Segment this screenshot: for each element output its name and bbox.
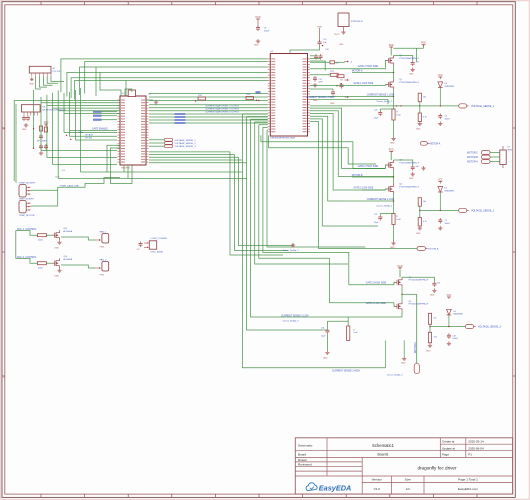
svg-text:Board1: Board1 [378,453,389,457]
svg-text:SDA: SDA [79,131,84,134]
svg-text:GND: GND [409,74,414,76]
svg-text:GATE 1 HIGH SIDE: GATE 1 HIGH SIDE [358,65,379,68]
svg-text:+3: +3 [350,62,352,64]
svg-text:GND: GND [54,276,59,278]
svg-text:Device_NetBp_2: Device_NetBp_2 [283,249,299,252]
svg-text:GND: GND [323,357,328,359]
svg-text:D4: D4 [445,83,447,85]
svg-text:100uF: 100uF [264,30,270,32]
svg-text:GATE 3 HIGH SIDE: GATE 3 HIGH SIDE [366,282,387,285]
svg-text:TSSOP24: TSSOP24 [121,168,131,170]
svg-text:SPI BUS: SPI BUS [85,135,94,137]
svg-text:Board: Board [298,452,307,456]
svg-text:Device_NetBp_3: Device_NetBp_3 [283,320,299,323]
svg-text:GND: GND [430,294,435,296]
svg-text:SMBJ5888: SMBJ5888 [445,86,454,88]
svg-text:V1.0: V1.0 [374,487,381,491]
svg-text:PGD: PGD [421,43,426,45]
svg-text:Drawn: Drawn [298,458,307,462]
svg-text:C31: C31 [321,327,324,329]
svg-text:VOLTAGE_SENSE_2: VOLTAGE_SENSE_2 [175,142,197,145]
svg-text:SPI LINES: SPI LINES [37,140,48,142]
svg-text:4.7k: 4.7k [434,336,438,338]
svg-text:EasyEDA: EasyEDA [319,484,351,493]
svg-text:100nF: 100nF [445,118,451,120]
svg-text:MOTOR-A: MOTOR-A [467,161,478,164]
svg-text:GATE 2 LOW SIDE: GATE 2 LOW SIDE [353,187,373,190]
svg-text:PWG: PWG [100,275,105,277]
svg-text:PWG: PWG [100,247,105,249]
svg-text:Schematic1: Schematic1 [372,443,395,448]
svg-text:VOLTAGE_SENSE_3: VOLTAGE_SENSE_3 [478,326,502,329]
svg-text:GND: GND [330,103,335,105]
svg-text:SDA: SDA [55,176,60,179]
svg-text:MBG: MBG [508,149,513,151]
svg-text:D: D [3,376,5,379]
svg-text:Device_NetBp_2: Device_NetBp_2 [387,373,403,376]
svg-text:TEMP_MOTOR: TEMP_MOTOR [19,215,35,217]
svg-text:X7RDPW-B: X7RDPW-B [351,21,363,23]
svg-text:D5: D5 [445,188,447,190]
svg-text:100nF: 100nF [445,223,451,225]
svg-text:C21: C21 [374,110,377,112]
svg-text:GND: GND [401,362,406,364]
svg-text:100nF: 100nF [452,338,458,340]
svg-text:Reviewed: Reviewed [298,462,312,466]
svg-text:Schematic: Schematic [298,443,313,447]
svg-text:2025-03-14: 2025-03-14 [468,439,484,443]
svg-text:VCC: VCC [438,180,443,182]
svg-text:SMBJ5888: SMBJ5888 [453,314,462,316]
svg-text:TEMP_DATA_LINE: TEMP_DATA_LINE [60,184,79,187]
svg-text:D6: D6 [453,311,455,313]
svg-text:SMBJ5888: SMBJ5888 [445,190,454,192]
svg-text:VCC: VCC [44,122,49,124]
svg-text:GATE 1 LOW SIDE: GATE 1 LOW SIDE [353,82,373,85]
svg-text:MOTOR-A: MOTOR-A [352,70,363,73]
svg-text:AO3400A: AO3400A [63,230,72,233]
svg-text:PGD: PGD [389,150,394,152]
svg-text:FAN_1: FAN_1 [100,231,107,234]
svg-text:GND: GND [416,233,421,235]
svg-text:Page 1 Total 1: Page 1 Total 1 [458,478,478,482]
svg-text:dragonfly foc driver: dragonfly foc driver [417,465,457,470]
svg-text:VCC: VCC [446,295,451,297]
svg-text:1mΩ: 1mΩ [396,114,401,116]
svg-text:10k: 10k [423,97,426,99]
svg-text:Page: Page [442,452,449,456]
svg-text:GND: GND [416,129,421,131]
svg-text:GND: GND [29,84,34,86]
svg-text:C29: C29 [452,335,455,337]
svg-text:PD13: PD13 [334,34,340,36]
svg-text:PTGD20N06FHPB-LF: PTGD20N06FHPB-LF [399,82,420,84]
svg-text:DISC_AGND: DISC_AGND [151,250,164,253]
svg-text:GND: GND [390,143,395,145]
svg-text:P1: P1 [468,452,472,456]
svg-text:GND: GND [339,44,344,46]
svg-text:VOLTAGE_SENSE_2: VOLTAGE_SENSE_2 [471,209,495,212]
svg-text:MOTOR-A: MOTOR-A [430,142,441,145]
svg-text:CURRENT SENSE 1 HIGH: CURRENT SENSE 1 HIGH [306,97,334,99]
svg-text:AO3400A: AO3400A [63,258,72,261]
svg-text:C9: C9 [445,116,447,118]
svg-text:A4: A4 [406,487,410,491]
svg-text:C9: C9 [445,220,447,222]
svg-text:PTGD20N06FHPB-LF: PTGD20N06FHPB-LF [399,186,420,188]
svg-text:VOLTAGE_SENSE_3: VOLTAGE_SENSE_3 [175,145,197,148]
svg-text:4.7k: 4.7k [423,117,427,119]
svg-text:C10: C10 [325,49,328,51]
svg-text:Update at: Update at [442,446,455,450]
svg-text:GATE ENABLE: GATE ENABLE [92,128,108,131]
svg-text:TEMP_MOSFET: TEMP_MOSFET [19,199,35,201]
svg-text:Device_NetBp_2: Device_NetBp_2 [377,100,393,103]
svg-text:4.7k: 4.7k [423,221,427,223]
svg-text:GATE 2 HIGH SIDE: GATE 2 HIGH SIDE [358,165,379,168]
svg-text:220Ω: 220Ω [38,267,43,269]
svg-text:GND: GND [426,350,431,352]
svg-text:GND: GND [409,178,414,180]
svg-text:C21: C21 [374,214,377,216]
svg-text:DRV8353RSRGZR-UMW: DRV8353RSRGZR-UMW [270,138,296,140]
svg-text:MOTOR-C: MOTOR-C [467,153,478,155]
svg-text:PGD: PGD [389,45,394,47]
svg-text:GND: GND [54,248,59,250]
svg-text:PGD: PGD [256,17,261,19]
svg-text:CURRENT SENSE 2 LOW: CURRENT SENSE 2 LOW [367,199,395,201]
svg-text:Version: Version [372,478,383,482]
svg-text:LOGIC_POWER: LOGIC_POWER [151,238,168,240]
svg-text:MOTOR-B: MOTOR-B [467,157,478,159]
svg-text:2025-06-04: 2025-06-04 [468,446,484,450]
svg-text:GND: GND [254,45,259,47]
svg-text:SPI SDI: SPI SDI [85,137,93,139]
svg-text:EasyEDA.com: EasyEDA.com [458,487,478,491]
svg-text:2.54 P/S: 2.54 P/S [53,71,61,73]
svg-text:CURRENT SENSE 3 HIGH: CURRENT SENSE 3 HIGH [332,371,360,373]
svg-text:RT1: RT1 [330,71,334,73]
svg-text:PTGD20N06FHPB-LF: PTGD20N06FHPB-LF [399,58,420,60]
svg-text:220Ω: 220Ω [38,239,43,241]
svg-text:Size: Size [405,478,411,482]
svg-text:TEMP_MOSFET: TEMP_MOSFET [19,182,36,184]
svg-text:PTGD20N06FHPB-LF: PTGD20N06FHPB-LF [399,162,420,164]
svg-text:PTGD20N06FHPB-LF: PTGD20N06FHPB-LF [409,304,430,306]
svg-text:71k: 71k [340,80,343,82]
svg-text:10k: 10k [423,201,426,203]
svg-text:Create at: Create at [442,439,455,443]
svg-text:1mΩ: 1mΩ [353,332,358,334]
svg-text:VCC: VCC [438,75,443,77]
svg-text:1k2: 1k2 [434,317,437,319]
svg-text:MOTOR-B: MOTOR-B [428,248,439,250]
svg-text:GND: GND [313,100,318,102]
svg-text:Device_NetBp_2: Device_NetBp_2 [377,205,393,208]
svg-text:CURRENT SENSE 1 LOW: CURRENT SENSE 1 LOW [367,95,395,97]
svg-text:GND: GND [22,129,27,131]
svg-text:PTGD20N06FHPB-LF: PTGD20N06FHPB-LF [409,280,430,282]
svg-text:VOLTAGE_SENSE_1: VOLTAGE_SENSE_1 [175,139,197,142]
svg-text:PGD: PGD [398,266,403,268]
svg-text:(C): (C) [122,93,125,95]
svg-text:1mΩ: 1mΩ [396,219,401,221]
svg-text:FAN_2: FAN_2 [100,259,107,262]
svg-text:VOLTAGE_SENSE_1: VOLTAGE_SENSE_1 [471,105,495,108]
